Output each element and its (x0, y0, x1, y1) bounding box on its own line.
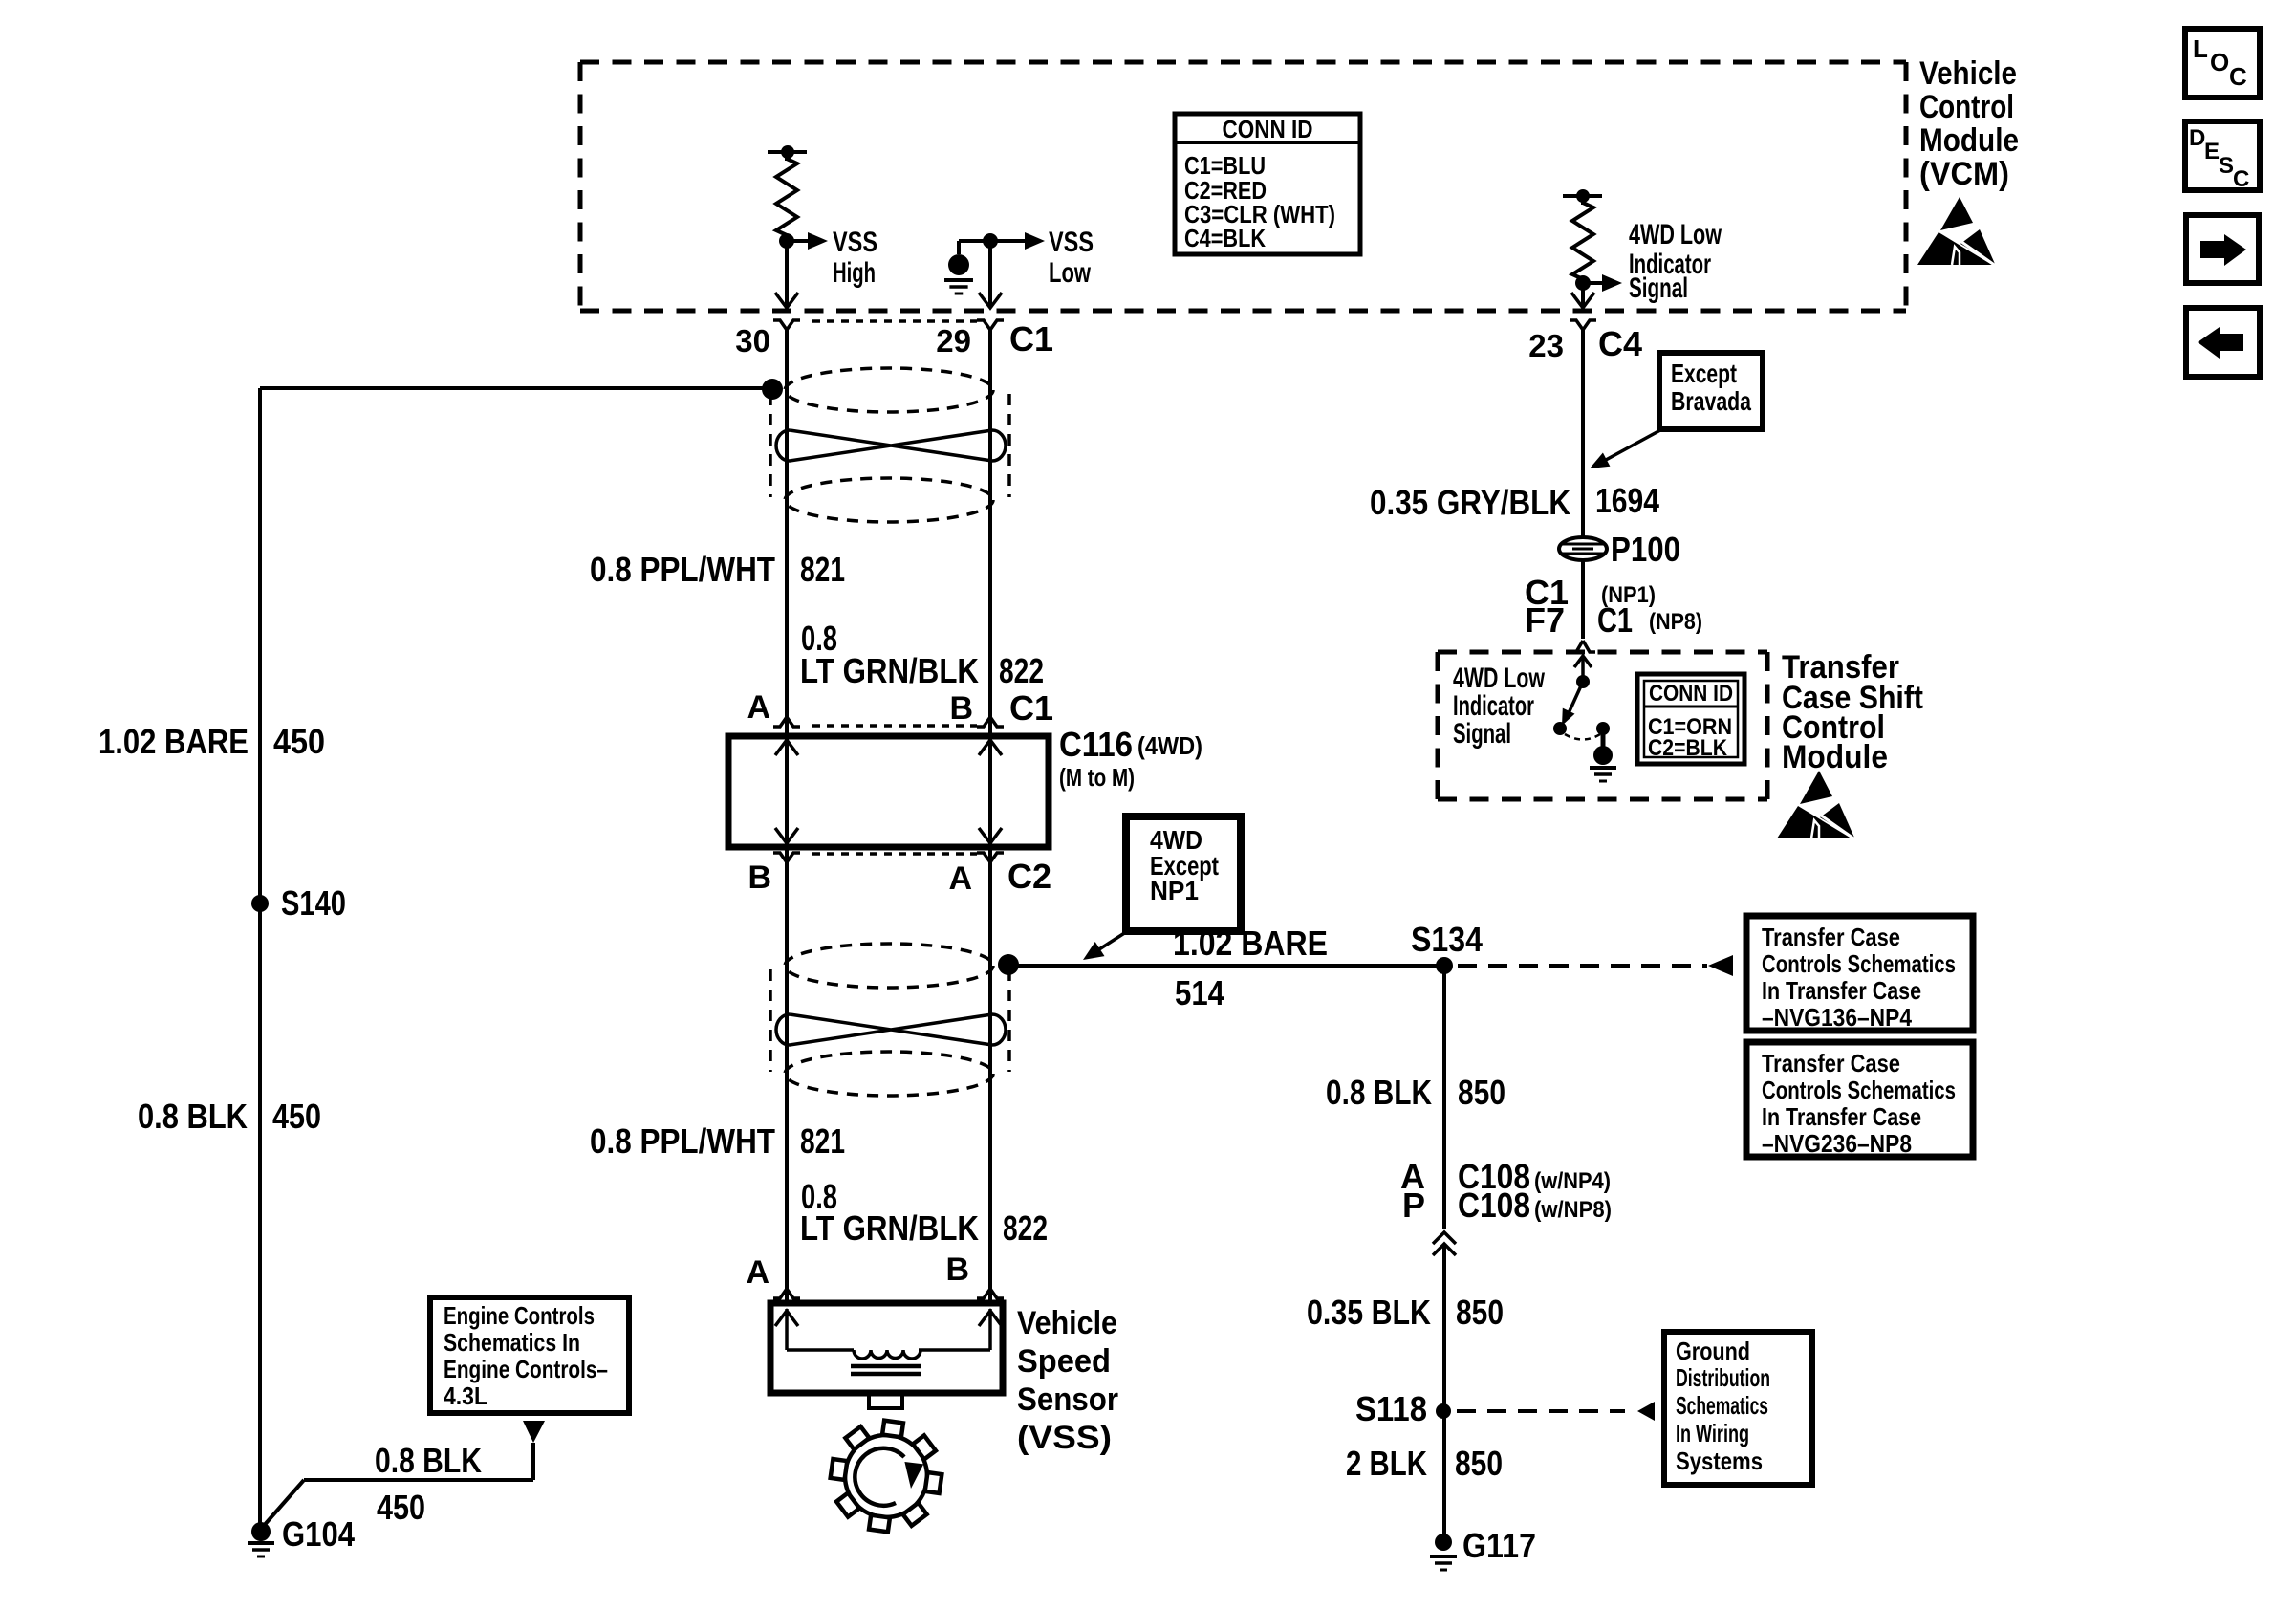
svg-text:821: 821 (800, 1121, 845, 1161)
pin A (VSS) (746, 1254, 800, 1298)
svg-text:S140: S140 (281, 883, 346, 923)
wire 850 BLK (1442, 966, 1446, 1229)
svg-text:C108: C108 (1458, 1186, 1530, 1225)
svg-text:VSS: VSS (833, 227, 877, 258)
connector C108 break (1433, 1232, 1456, 1255)
svg-text:C1: C1 (1009, 688, 1053, 728)
connector C116 box (728, 736, 1049, 847)
svg-text:450: 450 (273, 722, 325, 761)
VSS mounting stem (869, 1393, 902, 1408)
module TCSCM dashed outline (1438, 652, 1767, 799)
svg-text:Engine Controls: Engine Controls (444, 1301, 595, 1330)
svg-text:Sensor: Sensor (1017, 1382, 1118, 1418)
svg-text:In Transfer Case: In Transfer Case (1762, 976, 1921, 1005)
svg-text:29: 29 (936, 323, 971, 359)
svg-text:0.35 BLK: 0.35 BLK (1307, 1293, 1431, 1332)
node S118 (1355, 1389, 1451, 1428)
svg-text:(w/NP4): (w/NP4) (1534, 1168, 1611, 1194)
svg-text:Transfer Case: Transfer Case (1762, 1049, 1900, 1077)
wire below C108 (1442, 1244, 1446, 1535)
svg-text:821: 821 (800, 550, 845, 589)
C116 arrow A (775, 740, 798, 843)
svg-text:C1: C1 (1009, 319, 1053, 359)
svg-text:C: C (2233, 166, 2249, 192)
svg-text:(VCM): (VCM) (1919, 156, 2009, 192)
svg-text:(NP8): (NP8) (1649, 609, 1702, 635)
pin B (VSS) (945, 1251, 1004, 1298)
reference dashed to Ground Distribution (1457, 1402, 1655, 1421)
svg-text:LT GRN/BLK: LT GRN/BLK (800, 1208, 979, 1248)
svg-text:(VSS): (VSS) (1017, 1420, 1112, 1456)
wire left vertical (258, 388, 262, 1524)
svg-text:–NVG136–NP4: –NVG136–NP4 (1762, 1003, 1912, 1032)
connector dashes C116 top (812, 724, 977, 728)
table CONN ID (VCM) (1175, 114, 1360, 254)
svg-text:NP1: NP1 (1150, 876, 1199, 905)
pin chevron into TCSCM (1570, 641, 1595, 652)
label 0.35 GRY/BLK 1694 (1370, 481, 1659, 522)
pin 30 (735, 320, 800, 359)
svg-text:Control: Control (1919, 89, 2014, 125)
callout 4WD Except NP1 box (1126, 816, 1241, 931)
svg-text:Except: Except (1671, 359, 1737, 388)
wire stub VSS B (988, 1298, 992, 1306)
svg-text:L: L (2193, 34, 2208, 63)
svg-text:LT GRN/BLK: LT GRN/BLK (800, 651, 979, 690)
resistor VSS High pull-up (768, 145, 807, 241)
svg-text:Controls Schematics: Controls Schematics (1762, 1076, 1956, 1104)
reference box Transfer Case NP4 (1746, 916, 1973, 1032)
wire stub VSS A (785, 1298, 789, 1306)
svg-text:850: 850 (1455, 1444, 1503, 1483)
connector dashes C116 bottom (812, 852, 977, 856)
svg-text:C: C (2229, 62, 2247, 91)
pin 23 (1528, 320, 1596, 363)
label 1.02 BARE 514 (1173, 924, 1328, 1012)
svg-text:Signal: Signal (1453, 718, 1511, 750)
wire VSS High down to boundary (775, 241, 798, 308)
svg-text:450: 450 (377, 1488, 425, 1527)
icon DESC (2185, 121, 2260, 192)
svg-text:Vehicle: Vehicle (1017, 1305, 1117, 1341)
svg-text:(w/NP8): (w/NP8) (1534, 1197, 1612, 1223)
ESD symbol VCM (1917, 197, 2000, 269)
text P100 (1611, 530, 1680, 569)
svg-text:850: 850 (1456, 1293, 1504, 1332)
svg-text:A: A (746, 1254, 769, 1291)
VSS internal wiring (775, 1309, 1002, 1374)
label F7 C1 (NP8) (1525, 600, 1702, 640)
ground G117 (1430, 1526, 1536, 1570)
svg-text:Speed: Speed (1017, 1343, 1111, 1380)
callout arrow Except Bravada (1590, 430, 1660, 468)
reference box Ground Distribution (1664, 1332, 1812, 1485)
label 0.8 BLK 450 (branch) (375, 1441, 482, 1527)
wire VSS Low down to boundary (979, 241, 1002, 308)
svg-text:0.8 BLK: 0.8 BLK (1326, 1073, 1432, 1112)
text C2 (1007, 857, 1051, 896)
svg-text:D: D (2189, 125, 2205, 151)
text 4WD Low Indicator Signal (TCSCM) (1453, 663, 1545, 750)
svg-text:1694: 1694 (1595, 481, 1659, 520)
label P C108 (w/NP8) (1402, 1186, 1612, 1225)
svg-text:850: 850 (1458, 1073, 1505, 1112)
table CONN ID (TCSCM) (1637, 674, 1744, 764)
shield twisted pair upper (770, 368, 1009, 522)
callout arrow NP1 (1083, 930, 1129, 960)
node 4WD Low junction (1575, 275, 1591, 291)
svg-text:Ground: Ground (1676, 1337, 1750, 1365)
label 0.8 LT GRN/BLK 822 lower (800, 1177, 1048, 1248)
label 0.8 PPL/WHT 821 (590, 550, 845, 589)
svg-text:G104: G104 (282, 1514, 355, 1554)
svg-text:A: A (747, 689, 770, 726)
svg-text:1.02 BARE: 1.02 BARE (98, 722, 249, 761)
label A C108 (w/NP4) (1400, 1157, 1611, 1196)
wire stub B (988, 727, 992, 736)
wire G104 branch (262, 1443, 533, 1528)
wire C4 down to P100 (1581, 330, 1585, 538)
node VSS High junction (779, 233, 794, 249)
label 0.35 BLK 850 (1307, 1293, 1504, 1332)
svg-text:Engine Controls–: Engine Controls– (444, 1355, 608, 1383)
svg-text:0.35 GRY/BLK: 0.35 GRY/BLK (1370, 483, 1570, 522)
svg-text:G117: G117 (1462, 1526, 1536, 1565)
text VSS Low (1049, 227, 1094, 289)
svg-text:514: 514 (1175, 973, 1224, 1012)
wire P100 to connector (1581, 560, 1585, 639)
svg-text:CONN ID: CONN ID (1649, 681, 1733, 707)
icon arrow prev (2186, 308, 2260, 377)
tone wheel (reluctor ring) (831, 1421, 942, 1533)
svg-text:30: 30 (735, 323, 770, 359)
text C1 (C116) (1009, 688, 1053, 728)
shield twisted pair lower (770, 944, 1009, 1096)
arrow VSS High (787, 232, 828, 250)
label 1.02 BARE 450 (98, 722, 325, 761)
svg-text:Transfer Case: Transfer Case (1762, 923, 1900, 951)
reference dashed to Transfer Case schematics (1458, 955, 1733, 976)
svg-text:C4: C4 (1598, 324, 1642, 363)
pin B (C116 bottom) (747, 853, 800, 896)
svg-text:C2: C2 (1007, 857, 1051, 896)
pin 29 (936, 320, 1004, 359)
svg-text:Signal: Signal (1629, 272, 1688, 304)
pin B (C116 top) (949, 690, 1004, 727)
text C4 (1598, 324, 1642, 363)
wire pin30 down (785, 330, 789, 1303)
svg-text:Bravada: Bravada (1671, 386, 1751, 416)
svg-text:1.02 BARE: 1.02 BARE (1173, 924, 1328, 963)
node S140 (251, 883, 346, 923)
connector C1 dashes (812, 319, 977, 323)
svg-text:S118: S118 (1355, 1389, 1427, 1428)
label 0.8 BLK 850 (1326, 1073, 1505, 1112)
grommet P100 (1559, 537, 1607, 560)
icon LOC (2185, 29, 2260, 98)
svg-text:822: 822 (1003, 1208, 1048, 1248)
svg-text:C2=BLK: C2=BLK (1648, 735, 1728, 761)
svg-text:B: B (945, 1251, 969, 1288)
ESD symbol TCSCM (1777, 771, 1859, 842)
text 4WD Low Indicator Signal (VCM) (1629, 219, 1722, 304)
svg-text:B: B (949, 690, 973, 727)
svg-text:CONN ID: CONN ID (1223, 115, 1313, 143)
svg-text:Vehicle: Vehicle (1919, 55, 2017, 92)
svg-text:C1: C1 (1597, 600, 1633, 640)
text C116 (4WD) (1059, 725, 1202, 764)
svg-text:450: 450 (272, 1097, 321, 1136)
reference box Transfer Case NP8 (1746, 1042, 1973, 1158)
node shield tap upper (762, 379, 783, 400)
svg-text:(4WD): (4WD) (1137, 731, 1202, 760)
label 0.8 BLK 450 (138, 1097, 321, 1136)
svg-text:In Transfer Case: In Transfer Case (1762, 1102, 1921, 1131)
callout Engine Controls box (430, 1297, 629, 1413)
svg-text:E: E (2204, 139, 2220, 164)
node S134 (1411, 920, 1483, 974)
svg-text:Module: Module (1782, 739, 1888, 775)
svg-text:F7: F7 (1525, 600, 1565, 640)
C116 arrow B (979, 740, 1002, 843)
callout arrow Engine Controls (523, 1421, 545, 1443)
svg-text:S: S (2219, 153, 2234, 179)
svg-text:2 BLK: 2 BLK (1346, 1444, 1427, 1483)
svg-text:VSS: VSS (1049, 227, 1094, 258)
wire pin29 down (988, 330, 992, 1303)
svg-text:C4=BLK: C4=BLK (1184, 224, 1266, 252)
text Vehicle Speed Sensor (VSS) (1017, 1305, 1118, 1456)
svg-text:Schematics: Schematics (1676, 1391, 1768, 1420)
pin A (C116 bottom) (948, 853, 1004, 897)
label C1 (NP1) (1525, 573, 1656, 612)
ground VSS Low internal (944, 241, 973, 294)
svg-text:4WD Low: 4WD Low (1629, 219, 1722, 250)
svg-text:–NVG236–NP8: –NVG236–NP8 (1762, 1129, 1912, 1158)
svg-text:Systems: Systems (1676, 1447, 1763, 1475)
text C1 (top) (1009, 319, 1053, 359)
ground G104 (248, 1514, 355, 1556)
svg-text:Module: Module (1919, 122, 2019, 159)
svg-text:0.8 PPL/WHT: 0.8 PPL/WHT (590, 1121, 775, 1161)
label 0.8 PPL/WHT 821 lower (590, 1121, 845, 1161)
switch 4WD low (TCSCM) (1553, 656, 1616, 781)
module VCM dashed outline (580, 62, 1906, 311)
svg-text:P: P (1402, 1186, 1425, 1225)
label 0.8 LT GRN/BLK 822 (800, 619, 1044, 690)
svg-text:In Wiring: In Wiring (1676, 1419, 1749, 1447)
svg-text:Low: Low (1049, 257, 1091, 289)
svg-text:Distribution: Distribution (1676, 1363, 1770, 1392)
svg-text:Schematics In: Schematics In (444, 1328, 580, 1357)
node shield tap lower (998, 954, 1019, 975)
wire stub A (785, 727, 789, 736)
svg-text:S134: S134 (1411, 920, 1483, 959)
svg-text:Controls Schematics: Controls Schematics (1762, 949, 1956, 978)
label 2 BLK 850 (1346, 1444, 1503, 1483)
svg-text:4.3L: 4.3L (444, 1382, 487, 1410)
svg-text:C116: C116 (1059, 725, 1133, 764)
svg-text:(M to M): (M to M) (1059, 763, 1135, 792)
text Transfer Case Shift Control Module (1782, 649, 1923, 775)
arrow 4WD Low Indicator Signal (1583, 274, 1622, 292)
text (M to M) (1059, 763, 1135, 792)
svg-text:O: O (2210, 48, 2229, 76)
text VSS High (833, 227, 877, 289)
wire S140 branch horizontal (260, 386, 765, 390)
svg-text:0.8 PPL/WHT: 0.8 PPL/WHT (590, 550, 775, 589)
svg-text:P100: P100 (1611, 530, 1680, 569)
svg-text:High: High (833, 257, 876, 289)
svg-text:0.8 BLK: 0.8 BLK (138, 1097, 248, 1136)
callout Except Bravada box (1659, 353, 1763, 429)
icon arrow next (2186, 215, 2259, 283)
svg-text:0.8 BLK: 0.8 BLK (375, 1441, 482, 1480)
wire 514 BARE (1008, 964, 1444, 968)
svg-text:B: B (747, 859, 771, 896)
wire 4WD Low down to boundary (1571, 283, 1594, 308)
svg-text:23: 23 (1528, 328, 1564, 363)
pin A (C116 top) (747, 689, 800, 727)
svg-text:A: A (948, 860, 972, 897)
component VSS box (770, 1303, 1003, 1393)
resistor 4WD Low pull-up (1563, 189, 1602, 283)
svg-text:822: 822 (999, 651, 1044, 690)
text Vehicle Control Module (VCM) (1919, 55, 2019, 192)
wire VSS Low horizontal (959, 232, 1045, 250)
